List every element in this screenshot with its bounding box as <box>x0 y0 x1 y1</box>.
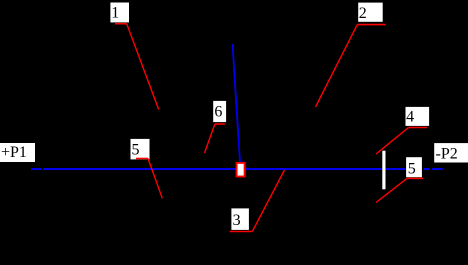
terminal label +P1 (positive pole) <box>0 143 35 162</box>
leader line for callout 1 <box>115 24 159 110</box>
leader line for callout 4 <box>376 128 427 155</box>
callout 5 left label box <box>131 139 150 160</box>
callout 2 label box <box>358 3 383 23</box>
wire: right dash segment b <box>432 168 443 170</box>
leader line for callout 6 <box>205 124 225 153</box>
callout 4 label box <box>406 107 430 126</box>
callout 3 label box <box>231 208 249 230</box>
svg-text:3: 3 <box>233 212 241 229</box>
wire: main horizontal blue conductor short left dash <box>31 168 41 170</box>
wire: right dash segment a <box>424 168 430 170</box>
callout 6 label box <box>213 101 226 122</box>
leader line for callout 5 right <box>376 178 423 202</box>
svg-text:5: 5 <box>408 161 416 178</box>
wire: slanted blue lead wire to bridge <box>233 44 241 162</box>
svg-text:4: 4 <box>406 109 414 126</box>
callout 5 right label box <box>406 157 422 177</box>
callout 1 label box <box>110 3 129 23</box>
leader line for callout 3 <box>230 170 285 232</box>
wire: main horizontal blue conductor <box>43 168 406 170</box>
svg-text:+P1: +P1 <box>1 144 27 161</box>
component: bridgewire igniter element (white body, red outline) <box>237 163 245 177</box>
svg-text:-P2: -P2 <box>436 145 458 162</box>
svg-text:6: 6 <box>214 104 222 121</box>
svg-text:2: 2 <box>359 5 367 22</box>
svg-text:5: 5 <box>132 142 140 159</box>
terminal label -P2 (negative pole) <box>434 143 468 162</box>
leader line for callout 5 left <box>136 159 162 199</box>
svg-text:1: 1 <box>111 4 119 21</box>
leader line for callout 2 <box>316 25 386 107</box>
component: electrode plate (white vertical bar) <box>382 151 385 190</box>
